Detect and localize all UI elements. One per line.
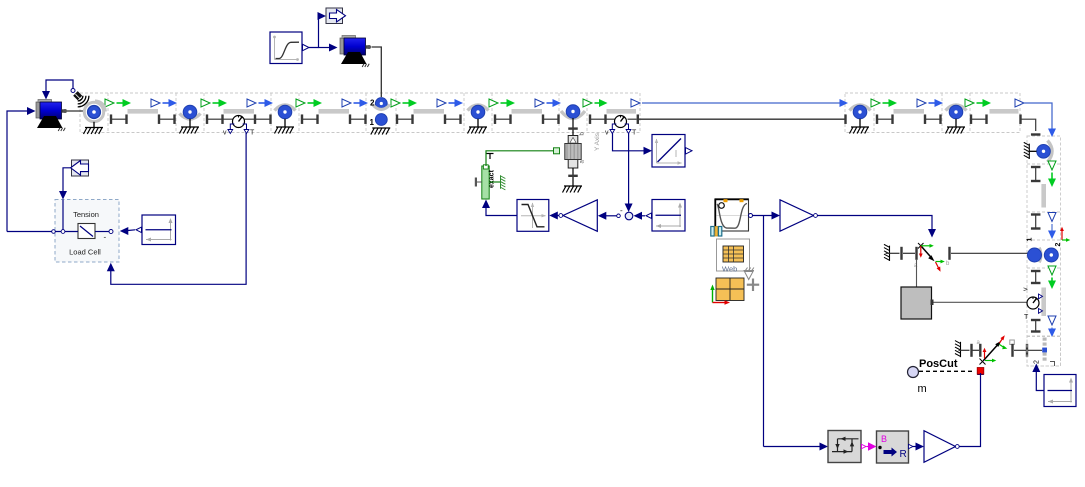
web span 2 connectors [201, 99, 273, 107]
svg-text:PosCut: PosCut [919, 358, 958, 370]
gravity symbol [744, 268, 760, 292]
svg-text:m: m [918, 383, 927, 395]
wire cam to gain and cutter logic branch [753, 212, 781, 447]
right span B blue connectors [1048, 316, 1056, 337]
web span 3 bar [319, 109, 350, 114]
ground for crank joint [884, 244, 900, 261]
web span 6 shaft couplings and long flange line [589, 114, 847, 124]
wire knife joint to cutter nip [1014, 344, 1042, 357]
wire cam branch to hysteresis [764, 443, 829, 451]
web span 7 shaft couplings [876, 114, 942, 124]
cam block color bars icon [711, 227, 722, 237]
ground for corner roller [1024, 142, 1037, 159]
cutter speed constant block [1044, 375, 1076, 407]
web span 2 bar [224, 109, 255, 114]
svg-text:1: 1 [370, 118, 375, 127]
corner roller (top right) [1037, 141, 1052, 163]
web span 6 bar [607, 109, 637, 114]
ground under unwind roll [84, 122, 104, 134]
wire ramp to output connector [309, 12, 326, 48]
svg-text:v: v [223, 130, 227, 137]
svg-text:1: 1 [1027, 238, 1034, 242]
right span A couplings [1031, 166, 1041, 182]
svg-text:Y Axis: Y Axis [594, 132, 601, 151]
svg-text:-: - [620, 206, 623, 215]
roller idler 2 [275, 105, 296, 119]
green command wire to Y axis [486, 151, 554, 166]
crank to inertia link [916, 260, 918, 287]
sum junction [620, 206, 633, 220]
tension load cell block [55, 200, 119, 263]
right span B bar [1041, 288, 1046, 317]
knife inertia body [901, 287, 934, 319]
roller idler 1 [180, 105, 201, 119]
position source left flange tick [475, 178, 482, 187]
motor M2 shaft wire to nip roller [372, 47, 382, 97]
roller idler 3 [468, 105, 489, 119]
dancer roller [561, 105, 585, 119]
PosCut position sensor [908, 358, 976, 395]
speed output connector [326, 8, 346, 24]
nip drive motor M2 [340, 36, 371, 68]
web span 1 connectors [105, 99, 177, 107]
Y axis actuator [565, 132, 601, 169]
svg-text:exact: exact [489, 169, 496, 188]
wire gain to cut frame [958, 373, 981, 447]
right span A connectors [1048, 161, 1056, 187]
web span 3 shaft couplings [301, 114, 367, 124]
web properties table block [717, 239, 750, 274]
svg-text:2: 2 [1034, 360, 1041, 364]
ground for knife joint [955, 341, 970, 358]
right span A bar [1041, 184, 1046, 208]
svg-text:R: R [900, 449, 907, 460]
lateral nip roller pair [1027, 238, 1063, 263]
nip roller pair (driven) [370, 98, 391, 127]
wire gain to limiter [549, 212, 559, 220]
wire crank joint to lateral nip [951, 252, 1028, 254]
web span 6 connectors (long) [583, 99, 848, 107]
knife revolute joint [970, 335, 1014, 364]
roller idler 5 [946, 105, 967, 119]
svg-text:B: B [881, 434, 887, 444]
wire sensor2 T down to sum [625, 133, 633, 212]
cam gain triangle [780, 200, 817, 231]
svg-text:-: - [104, 233, 107, 242]
S-curve ramp source block [270, 32, 309, 64]
wire radius signal to motor M1 top [42, 80, 75, 100]
web span 1 shaft couplings [110, 114, 176, 124]
dancer gain (left pointing) [559, 200, 597, 232]
unwind motor M1 [36, 100, 67, 132]
svg-text:v: v [1023, 287, 1030, 291]
Y axis lower shaft and ground [563, 168, 583, 193]
ground under roller 2 [275, 119, 295, 134]
wire sensor2 v to linear filter [613, 133, 653, 155]
boolean to real block [877, 431, 909, 463]
web span 8 bar [990, 109, 1019, 114]
svg-text:Tension: Tension [73, 210, 99, 219]
ground under roller 5 [946, 119, 966, 134]
wire B2R to cut gain [909, 443, 925, 451]
boolean wire hysteresis to B2R [862, 442, 877, 451]
world frame block [710, 278, 744, 305]
svg-text:2: 2 [370, 99, 375, 108]
wire const to cutter nip [1032, 364, 1044, 391]
linear filter block [652, 135, 692, 168]
constant setpoint block 2 [646, 200, 685, 232]
wire const1 to load cell [120, 227, 135, 235]
Y axis flange connector square [554, 148, 560, 154]
wire speed setpoint into motor M1 [7, 107, 36, 232]
svg-text:2: 2 [1055, 243, 1062, 247]
web span 4 connectors [391, 99, 463, 107]
ground under roller 3 [468, 119, 488, 134]
right span B lower couplings [1031, 319, 1041, 333]
wire const2 to sum [634, 212, 646, 220]
unwind roll [84, 101, 105, 122]
wire sensor1 T to load cell loop [107, 133, 246, 284]
cut frame connector (red square) [977, 368, 984, 376]
tension setpoint input connector [71, 160, 89, 176]
motor M1 shaft [67, 110, 84, 112]
web span 8 shaft couplings turning down [970, 114, 1041, 135]
cam profile source block [715, 199, 753, 231]
dancer to Y-axis shaft [568, 118, 578, 136]
web span 2 shaft couplings [206, 114, 272, 124]
load cell wires and node circles [7, 230, 113, 242]
svg-text:Load Cell: Load Cell [69, 248, 101, 257]
web tension/velocity sensor 1 [223, 116, 255, 137]
web span 5 bar [512, 109, 543, 114]
wire inertia to torque sensor [934, 301, 1027, 303]
torque sensor on right chain [1023, 287, 1043, 321]
wire limiter to position actuator [482, 200, 517, 216]
web span 7 connectors [871, 99, 943, 107]
web span 5 shaft couplings [494, 114, 560, 124]
web span 7 bar [894, 109, 925, 114]
ground under nip pair [371, 128, 391, 135]
constant setpoint block 1 [136, 215, 176, 245]
dashed unit boxes top chain [80, 93, 1020, 133]
position source (exact) [482, 154, 496, 200]
cutter nip unit [1027, 337, 1061, 367]
svg-text:Web: Web [722, 265, 737, 274]
web span 4 bar [414, 109, 445, 114]
right span B connectors [1048, 266, 1056, 289]
wire gain to rotary joint [818, 216, 937, 238]
roller idler 4 [850, 105, 871, 119]
right span B couplings [1031, 270, 1041, 284]
hysteresis trigger block [828, 431, 861, 463]
svg-text:T: T [632, 130, 637, 137]
right span A blue connectors [1048, 213, 1056, 240]
web tension/velocity sensor 2 [605, 116, 637, 137]
web span 4 shaft couplings [396, 114, 462, 124]
svg-text:T: T [1024, 314, 1029, 321]
svg-text:v: v [605, 130, 609, 137]
web span 8 connectors (turns down at right) [965, 99, 1056, 137]
crank revolute joint [900, 243, 950, 272]
right span A lower couplings [1031, 213, 1041, 229]
web span 3 connectors [296, 99, 368, 107]
limiter block [517, 200, 549, 232]
wire input connector to load cell [59, 168, 71, 230]
unwind roll radius sensor (radio icon) [73, 91, 89, 107]
dashed unit boxes right chain [1027, 136, 1061, 366]
svg-text:T: T [250, 130, 255, 137]
web span 5 connectors [489, 99, 561, 107]
cut gain triangle [924, 431, 959, 463]
ground under roller 1 [180, 119, 200, 134]
wire sum to dancer gain [598, 212, 621, 220]
green flange and ground of position source [489, 175, 505, 190]
wire ramp to motor M2 [319, 44, 338, 52]
ground under roller 4 [850, 119, 870, 134]
frame marker at lateral nip [1060, 227, 1070, 242]
web span 1 bar [128, 109, 159, 114]
